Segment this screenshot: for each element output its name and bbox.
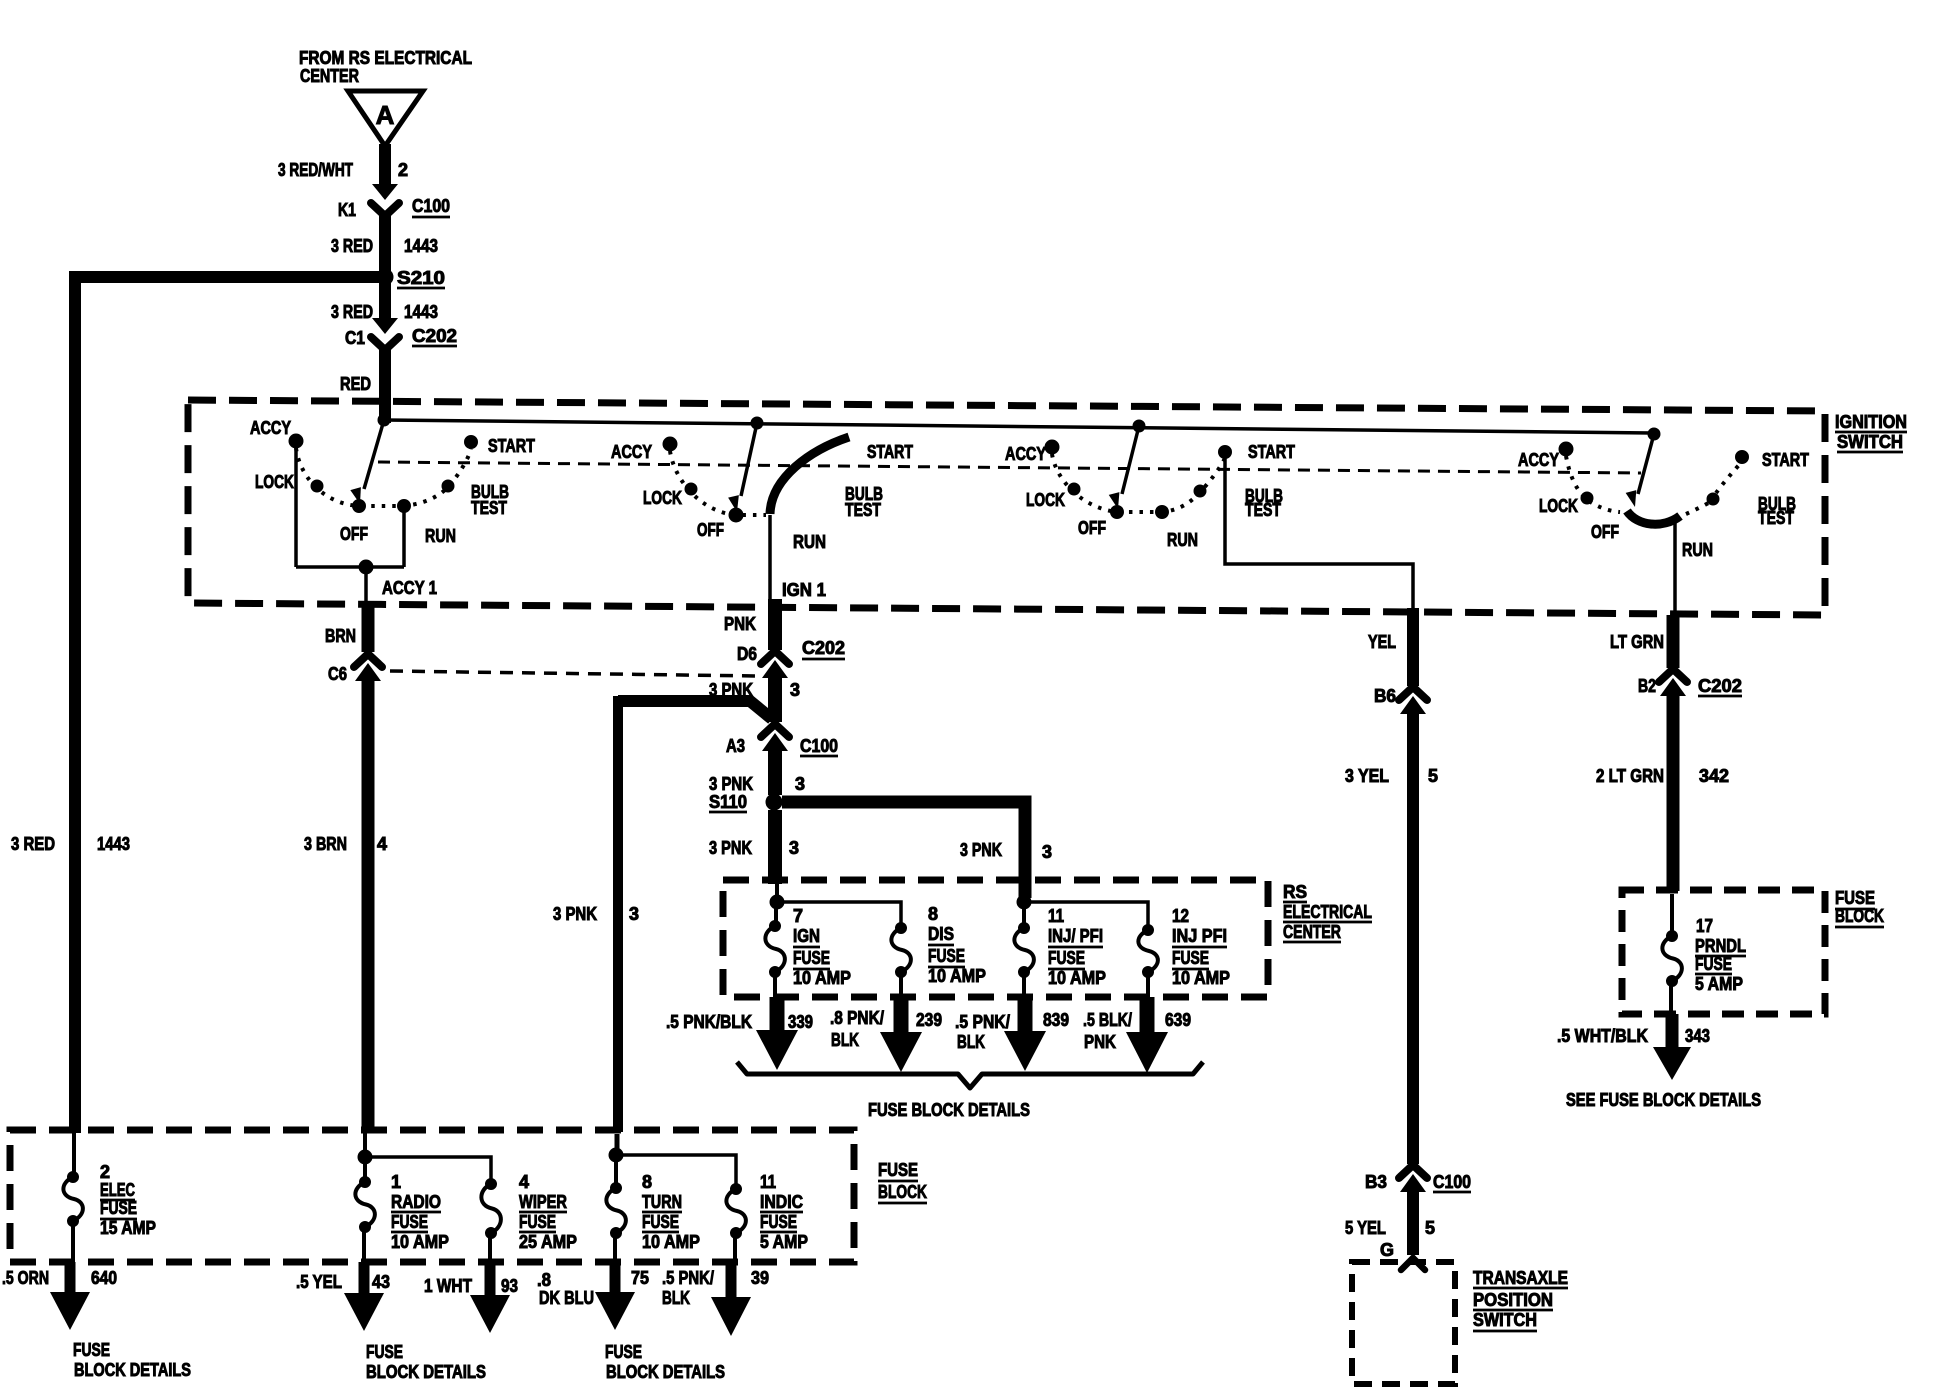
label 1443 (left branch): [97, 834, 130, 854]
detent arc gang 1 (dotted): [296, 448, 471, 506]
svg-text:FROM RS ELECTRICAL: FROM RS ELECTRICAL: [299, 48, 472, 68]
svg-text:OFF: OFF: [697, 520, 724, 540]
label B2: [1638, 676, 1656, 696]
wire IGN 1 output, gang 2: [768, 515, 772, 600]
svg-text:ELECTRICAL: ELECTRICAL: [1283, 902, 1372, 922]
svg-text:FUSE: FUSE: [642, 1212, 679, 1232]
label 5 YEL: [1345, 1218, 1386, 1238]
contact RUN gang 1: [398, 500, 411, 513]
wire 5 YEL ckt 5 (B3 to transaxle position switch): [1407, 1188, 1419, 1255]
switch blade arc gang 2 (RUN to START, closed): [770, 437, 849, 514]
off-page source label FROM RS ELECTRICAL CENTER: [299, 48, 472, 86]
contact OFF gang 3: [1111, 506, 1124, 519]
svg-text:3 BRN: 3 BRN: [304, 834, 347, 854]
connector C202 pin C1: [371, 318, 399, 350]
svg-text:CENTER: CENTER: [300, 66, 359, 86]
label RS ELECTRICAL CENTER: [1283, 882, 1372, 942]
svg-text:2 LT GRN: 2 LT GRN: [1596, 766, 1664, 786]
svg-text:C202: C202: [412, 326, 457, 346]
svg-text:4: 4: [519, 1172, 529, 1192]
svg-text:BLOCK DETAILS: BLOCK DETAILS: [366, 1362, 486, 1382]
label RUN: [793, 532, 826, 552]
svg-text:3 PNK: 3 PNK: [709, 774, 753, 794]
svg-text:3: 3: [629, 904, 639, 924]
svg-text:4: 4: [377, 834, 387, 854]
svg-text:FUSE: FUSE: [793, 948, 830, 968]
RS electrical center dashed box: [723, 880, 1268, 997]
svg-text:10 AMP: 10 AMP: [793, 968, 851, 988]
label 75: [631, 1268, 649, 1288]
caption SEE FUSE BLOCK DETAILS: [1566, 1090, 1761, 1110]
connector C100 pin A3: [761, 724, 789, 751]
svg-text:3 RED: 3 RED: [11, 834, 55, 854]
label 1443: [404, 302, 438, 322]
label C202: [412, 326, 457, 346]
label 39: [751, 1268, 769, 1288]
svg-text:BLOCK: BLOCK: [1835, 906, 1884, 926]
internal supply bus wire: [384, 420, 1654, 433]
wire 3 PNK ckt 3 (A3 to S110): [768, 746, 782, 795]
svg-text:CENTER: CENTER: [1283, 922, 1341, 942]
svg-text:339: 339: [788, 1012, 813, 1032]
node: bus junction, gang 4: [1648, 428, 1660, 440]
caption FUSE BLOCK DETAILS (under radio): [366, 1342, 486, 1382]
contact LOCK gang 2: [685, 483, 697, 495]
wire 3 BRN ckt 4 (C6 to RADIO fuse): [362, 676, 375, 1132]
svg-text:C100: C100: [800, 736, 838, 756]
svg-text:A3: A3: [726, 736, 745, 756]
svg-text:C100: C100: [1433, 1172, 1471, 1192]
svg-text:ACCY: ACCY: [250, 418, 291, 438]
wire 3 RED ckt 1443 (S210 to C202): [379, 283, 391, 320]
svg-text:10 AMP: 10 AMP: [391, 1232, 449, 1252]
wire 1 WHT ckt 93 output arrow: [470, 1262, 510, 1333]
svg-text:3 YEL: 3 YEL: [1345, 766, 1389, 786]
fuse 11 INJ/PFI FUSE 10 AMP: [1014, 906, 1034, 997]
svg-text:K1: K1: [338, 200, 356, 220]
svg-text:A: A: [376, 100, 395, 130]
switch arm, gang 1: [350, 420, 384, 506]
contact START gang 1: [465, 436, 478, 449]
wire 3 PNK elbow branch to TURN fuse feed: [618, 696, 772, 1132]
svg-text:RS: RS: [1283, 882, 1307, 902]
svg-text:LOCK: LOCK: [255, 472, 294, 492]
node: RADIO fuse feed junction: [358, 1133, 372, 1164]
label .5 YEL: [296, 1272, 342, 1292]
svg-text:SWITCH: SWITCH: [1473, 1310, 1537, 1330]
caption FUSE BLOCK DETAILS (under turn): [605, 1342, 725, 1382]
svg-text:FUSE: FUSE: [366, 1342, 403, 1362]
wire .5 WHT/BLK ckt 343 output arrow: [1653, 1014, 1691, 1080]
svg-text:LOCK: LOCK: [1539, 496, 1578, 516]
label 339: [788, 1012, 813, 1032]
label LOCK: [255, 472, 294, 492]
svg-text:343: 343: [1685, 1026, 1710, 1046]
wire 3 RED/WHT ckt 2 from triangle A: [379, 144, 391, 186]
svg-text:5 AMP: 5 AMP: [1695, 974, 1743, 994]
svg-text:3: 3: [789, 838, 799, 858]
svg-text:RUN: RUN: [425, 526, 456, 546]
svg-text:43: 43: [372, 1272, 390, 1292]
label 839: [1043, 1010, 1069, 1030]
svg-text:BLOCK: BLOCK: [878, 1182, 927, 1202]
label 639: [1165, 1010, 1191, 1030]
label fuse 1 RADIO FUSE 10 AMP: [391, 1172, 449, 1252]
svg-text:3: 3: [790, 680, 800, 700]
label fuse 11 INDIC FUSE 5 AMP: [760, 1172, 808, 1252]
svg-text:7: 7: [793, 906, 803, 926]
label BRN: [325, 626, 356, 646]
svg-text:39: 39: [751, 1268, 769, 1288]
wire ACCY contact down, gang 1: [294, 447, 298, 567]
contact RUN gang 3: [1156, 506, 1169, 519]
svg-text:.5 WHT/BLK: .5 WHT/BLK: [1557, 1026, 1648, 1046]
contact START gang 4: [1736, 451, 1749, 464]
svg-text:FUSE: FUSE: [100, 1198, 137, 1218]
svg-text:B3: B3: [1365, 1172, 1387, 1192]
label 640: [91, 1268, 117, 1288]
svg-text:1: 1: [391, 1172, 401, 1192]
svg-text:C100: C100: [412, 196, 450, 216]
contact OFF gang 1: [353, 500, 366, 513]
contact LOCK gang 3: [1068, 483, 1080, 495]
svg-text:.5 PNK/: .5 PNK/: [955, 1012, 1010, 1032]
transaxle position switch dashed box: [1352, 1262, 1455, 1384]
label OFF: [1078, 518, 1106, 538]
svg-text:START: START: [1248, 442, 1295, 462]
label .8 DK BLU: [537, 1270, 594, 1308]
svg-text:TEST: TEST: [1245, 500, 1281, 520]
label RUN: [425, 526, 456, 546]
svg-text:B6: B6: [1374, 686, 1396, 706]
svg-text:PNK: PNK: [1084, 1032, 1116, 1052]
svg-text:17: 17: [1696, 916, 1713, 936]
label LOCK: [1539, 496, 1578, 516]
label ckt 5: [1425, 1218, 1435, 1238]
label BULB TEST: [1758, 494, 1796, 528]
label ckt 3: [789, 838, 799, 858]
off-page connector triangle A: [348, 91, 423, 146]
wire PNK (IGN 1 out of ignition switch): [768, 599, 782, 650]
svg-text:3 PNK: 3 PNK: [709, 838, 752, 858]
svg-text:FUSE: FUSE: [391, 1212, 428, 1232]
label fuse 7 IGN FUSE 10 AMP: [793, 906, 851, 988]
fuse 8 DIS FUSE 10 AMP: [891, 923, 911, 998]
wire 2 LT GRN ckt 342 (B2 to PRNDL fuse): [1667, 692, 1680, 891]
label OFF: [340, 524, 368, 544]
label YEL: [1368, 632, 1396, 652]
node: TURN fuse feed junction: [609, 1134, 623, 1162]
label ACCY: [1005, 444, 1046, 464]
label C100: [1433, 1172, 1471, 1192]
label BULB TEST: [845, 484, 883, 520]
label fuse 8 TURN FUSE 10 AMP: [642, 1172, 700, 1252]
node: bus junction, gang 2: [751, 417, 763, 429]
wire 3 RED ckt 1443 (C100 to S210): [379, 214, 391, 273]
svg-text:75: 75: [631, 1268, 649, 1288]
svg-text:.8 PNK/: .8 PNK/: [830, 1008, 884, 1028]
label .8 PNK/BLK: [830, 1008, 884, 1050]
svg-text:PRNDL: PRNDL: [1695, 936, 1746, 956]
connector C202 pin B2: [1659, 669, 1687, 696]
svg-text:10 AMP: 10 AMP: [928, 966, 986, 986]
label C202: [1698, 676, 1742, 696]
label 3 YEL: [1345, 766, 1389, 786]
connector C202 pin D6: [761, 651, 789, 678]
svg-text:8: 8: [928, 904, 938, 924]
svg-text:1 WHT: 1 WHT: [424, 1276, 472, 1296]
wire LT GRN (RUN out of ignition switch): [1667, 615, 1680, 668]
svg-text:FUSE: FUSE: [73, 1340, 110, 1360]
svg-text:LOCK: LOCK: [643, 488, 682, 508]
label fuse 2 ELEC FUSE 15 AMP: [100, 1162, 156, 1238]
label 3 PNK (branch): [960, 840, 1002, 860]
svg-text:1443: 1443: [97, 834, 130, 854]
svg-text:.5 PNK/BLK: .5 PNK/BLK: [666, 1012, 752, 1032]
svg-text:RED: RED: [340, 374, 371, 394]
label S110: [709, 792, 747, 812]
wire .5 ORN ckt 640 output arrow: [50, 1262, 90, 1330]
svg-text:OFF: OFF: [340, 524, 368, 544]
svg-text:10 AMP: 10 AMP: [1172, 968, 1230, 988]
svg-text:3 RED/WHT: 3 RED/WHT: [278, 160, 353, 180]
label ckt 4: [377, 834, 387, 854]
svg-text:SEE FUSE BLOCK DETAILS: SEE FUSE BLOCK DETAILS: [1566, 1090, 1761, 1110]
svg-text:839: 839: [1043, 1010, 1069, 1030]
fuse 7 IGN FUSE 10 AMP: [765, 906, 785, 997]
label OFF: [697, 520, 724, 540]
label 3 PNK (TURN feed): [553, 904, 597, 924]
wire junction to DIS fuse: [777, 902, 901, 925]
label ckt 2: [398, 160, 408, 180]
label A3: [726, 736, 745, 756]
svg-text:12: 12: [1172, 906, 1189, 926]
label 3 PNK: [709, 774, 753, 794]
wire joining ACCY and RUN, gang 1: [296, 565, 404, 569]
svg-text:239: 239: [916, 1010, 942, 1030]
svg-text:5 YEL: 5 YEL: [1345, 1218, 1386, 1238]
svg-text:RUN: RUN: [1167, 530, 1198, 550]
label ckt 5: [1428, 766, 1438, 786]
label PNK: [724, 614, 756, 634]
svg-text:DIS: DIS: [928, 924, 954, 944]
brace for fuse block details: [737, 1062, 1203, 1088]
label OFF: [1591, 522, 1619, 542]
svg-text:IGN: IGN: [793, 926, 820, 946]
svg-text:10 AMP: 10 AMP: [642, 1232, 700, 1252]
splice S210: [377, 269, 393, 285]
wire .5 PNK/BLK ckt 39 output arrow: [711, 1262, 751, 1336]
svg-text:S210: S210: [397, 268, 445, 288]
terminal G fork: [1401, 1258, 1425, 1270]
label ckt 3 (TURN feed): [629, 904, 639, 924]
label 3 PNK: [709, 838, 752, 858]
label IGNITION SWITCH: [1835, 412, 1907, 452]
label 1 WHT: [424, 1276, 472, 1296]
svg-text:FUSE: FUSE: [1172, 948, 1209, 968]
fuse block dashed box (right): [1622, 890, 1825, 1014]
label .5 PNK/BLK: [666, 1012, 752, 1032]
label START: [1248, 442, 1295, 462]
label fuse 17 PRNDL FUSE 5 AMP: [1695, 916, 1746, 994]
wire YEL (START out of ignition switch): [1407, 608, 1419, 686]
svg-text:BLOCK DETAILS: BLOCK DETAILS: [74, 1360, 191, 1380]
contact BULB TEST gang 1: [442, 480, 454, 492]
wire ACCY 1 output: [364, 567, 368, 602]
svg-text:WIPER: WIPER: [519, 1192, 567, 1212]
wire 3 YEL ckt 5 (B6 to B3): [1407, 710, 1419, 1164]
node ACCY 1 output junction: [359, 560, 373, 574]
svg-text:C202: C202: [802, 638, 845, 658]
svg-text:FUSE: FUSE: [1835, 888, 1875, 908]
svg-text:YEL: YEL: [1368, 632, 1396, 652]
label C100: [412, 196, 450, 217]
svg-text:RUN: RUN: [1682, 540, 1713, 560]
wire junction to INJ PFI fuse 12: [1024, 902, 1148, 927]
svg-text:BLOCK DETAILS: BLOCK DETAILS: [606, 1362, 725, 1382]
svg-text:5 AMP: 5 AMP: [760, 1232, 808, 1252]
svg-text:11: 11: [760, 1172, 776, 1192]
label RUN: [1167, 530, 1198, 550]
node: bus junction, gang 1: [378, 414, 390, 426]
svg-text:TEST: TEST: [1758, 508, 1794, 528]
label .5 BLK/PNK: [1083, 1010, 1132, 1052]
svg-text:C6: C6: [328, 664, 347, 684]
switch blade arc gang 4 (OFF to RUN, closed): [1627, 511, 1680, 524]
svg-text:START: START: [867, 442, 913, 462]
wire .5 PNK/BLK ckt 839 output arrow: [1004, 997, 1046, 1071]
label BULB TEST: [471, 482, 509, 518]
svg-text:OFF: OFF: [1591, 522, 1619, 542]
svg-text:BRN: BRN: [325, 626, 356, 646]
wire RUN contact down, gang 1: [402, 511, 406, 567]
label 3 RED: [331, 236, 373, 256]
svg-text:TEST: TEST: [471, 498, 507, 518]
mechanical linkage dashed line: [378, 462, 1641, 473]
svg-text:FUSE: FUSE: [605, 1342, 642, 1362]
svg-text:B2: B2: [1638, 676, 1656, 696]
svg-text:D6: D6: [737, 644, 757, 664]
svg-text:DK BLU: DK BLU: [539, 1288, 594, 1308]
label 3 RED (left branch): [11, 834, 55, 854]
svg-text:342: 342: [1699, 766, 1729, 786]
svg-text:SWITCH: SWITCH: [1837, 432, 1903, 452]
svg-text:START: START: [488, 436, 535, 456]
label LT GRN: [1610, 632, 1664, 652]
svg-text:RUN: RUN: [793, 532, 826, 552]
wire 3 PNK ckt 3 (S110 to IGN fuse): [768, 810, 782, 884]
label 3 PNK: [709, 680, 753, 700]
svg-text:3: 3: [1042, 842, 1052, 862]
svg-text:OFF: OFF: [1078, 518, 1106, 538]
svg-text:POSITION: POSITION: [1473, 1290, 1553, 1310]
svg-text:.5 PNK/: .5 PNK/: [662, 1268, 714, 1288]
label ACCY: [611, 442, 652, 462]
svg-text:START: START: [1762, 450, 1809, 470]
wire 3 PNK ckt 3 (D6 to A3): [768, 674, 782, 722]
svg-text:2: 2: [398, 160, 408, 180]
label C100: [800, 736, 838, 756]
wire .8 DK BLU ckt 75 output arrow: [595, 1262, 635, 1330]
label BULB TEST: [1245, 486, 1283, 520]
svg-text:ACCY: ACCY: [1005, 444, 1046, 464]
label ckt 3: [790, 680, 800, 700]
fuse 12 INJ PFI FUSE 10 AMP: [1138, 925, 1158, 998]
contact LOCK gang 4: [1581, 492, 1593, 504]
svg-text:ACCY 1: ACCY 1: [382, 578, 437, 598]
label C202: [802, 638, 845, 659]
svg-text:10 AMP: 10 AMP: [1048, 968, 1106, 988]
switch arm, gang 3: [1109, 426, 1139, 510]
svg-text:RADIO: RADIO: [391, 1192, 441, 1212]
label 343: [1685, 1026, 1710, 1046]
wire 3 RED ckt 1443 branch to left (S210 to ELEC fuse): [75, 271, 379, 1133]
svg-text:3 PNK: 3 PNK: [553, 904, 597, 924]
svg-text:93: 93: [501, 1276, 518, 1296]
detent arc gang 2 (dotted): [670, 451, 766, 515]
contact BULB TEST gang 3: [1194, 485, 1206, 497]
svg-text:G: G: [1380, 1240, 1394, 1260]
label 3 BRN: [304, 834, 347, 854]
label 93: [501, 1276, 518, 1296]
fuse 17 PRNDL FUSE 5 AMP: [1662, 894, 1682, 1014]
svg-text:FUSE: FUSE: [1048, 948, 1085, 968]
svg-text:15 AMP: 15 AMP: [100, 1218, 156, 1238]
contact ACCY gang 2: [663, 437, 677, 451]
label START: [488, 436, 535, 456]
svg-text:INJ/ PFI: INJ/ PFI: [1048, 926, 1103, 946]
label .5 PNK/BLK: [955, 1012, 1010, 1052]
wire junction to INDIC fuse: [616, 1155, 736, 1186]
svg-text:FUSE: FUSE: [760, 1212, 797, 1232]
svg-text:.8: .8: [537, 1270, 551, 1290]
svg-text:.5 ORN: .5 ORN: [2, 1268, 49, 1288]
label ACCY 1: [382, 578, 437, 598]
svg-text:.5 BLK/: .5 BLK/: [1083, 1010, 1132, 1030]
label IGN 1: [782, 580, 826, 600]
svg-text:ACCY: ACCY: [1518, 450, 1559, 470]
label FUSE BLOCK (right box): [1835, 888, 1884, 927]
svg-text:BLK: BLK: [662, 1288, 690, 1308]
svg-text:3: 3: [795, 774, 805, 794]
switch arm, gang 4: [1626, 434, 1654, 508]
svg-text:ACCY: ACCY: [611, 442, 652, 462]
wire 3 PNK ckt 3 branch (S110 to INJ fuses): [782, 802, 1025, 898]
connector C202 pin C6: [354, 654, 382, 681]
svg-text:TRANSAXLE: TRANSAXLE: [1473, 1268, 1568, 1288]
svg-text:8: 8: [642, 1172, 652, 1192]
label .5 WHT/BLK: [1557, 1026, 1648, 1046]
svg-text:3 RED: 3 RED: [331, 236, 373, 256]
label fuse 4 WIPER FUSE 25 AMP: [519, 1172, 577, 1252]
wire .5 BLK/PNK ckt 639 output arrow: [1126, 997, 1168, 1073]
wire .5 PNK/BLK ckt 339 output arrow: [756, 997, 798, 1070]
svg-text:5: 5: [1425, 1218, 1435, 1238]
label RED: [340, 374, 371, 394]
splice S110: [766, 794, 782, 810]
contact ACCY gang 4: [1559, 442, 1573, 456]
svg-text:LOCK: LOCK: [1026, 490, 1065, 510]
label 3 RED: [331, 302, 373, 322]
fuse 2 ELEC FUSE 15 AMP: [63, 1133, 83, 1262]
label .5 PNK/BLK: [662, 1268, 714, 1308]
svg-text:11: 11: [1048, 906, 1064, 926]
label 3 RED/WHT: [278, 160, 353, 180]
connector pin B6: [1399, 687, 1427, 714]
svg-text:BLK: BLK: [831, 1030, 859, 1050]
svg-text:LT GRN: LT GRN: [1610, 632, 1664, 652]
contact LOCK gang 1: [311, 480, 323, 492]
